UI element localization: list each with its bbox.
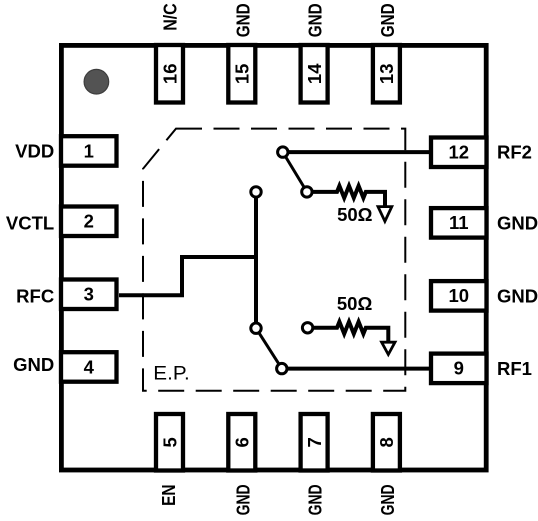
svg-text:1: 1	[84, 140, 94, 161]
svg-text:6: 6	[232, 437, 253, 447]
resistor R2 50ohm (bottom termination)	[308, 322, 389, 343]
pin 2 box	[61, 207, 117, 237]
pin 8 box	[373, 414, 400, 471]
node bottom throw contact	[251, 323, 261, 333]
pin 9 box	[431, 354, 487, 384]
svg-text:RF1: RF1	[497, 358, 532, 379]
svg-text:GND: GND	[232, 3, 253, 37]
svg-text:EN: EN	[158, 484, 179, 506]
pin 6 box	[228, 414, 255, 471]
node bottom 50ohm contact	[302, 323, 312, 333]
pin 3 box	[61, 280, 117, 310]
pin 7 box	[301, 414, 328, 471]
pin 1 box	[61, 136, 117, 166]
svg-text:GND: GND	[305, 484, 326, 515]
wire RF2 line to pin 12	[283, 150, 429, 154]
svg-text:E.P.: E.P.	[153, 363, 189, 385]
node RF1 contact	[277, 363, 287, 373]
svg-text:13: 13	[376, 64, 397, 85]
svg-text:GND: GND	[497, 212, 538, 233]
svg-text:50Ω: 50Ω	[337, 204, 373, 225]
ground arrow (bottom termination)	[382, 342, 395, 354]
pin 11 box	[431, 208, 487, 238]
node top 50ohm contact	[302, 187, 312, 197]
svg-text:14: 14	[304, 63, 325, 84]
wire RFC trace from pin 3	[119, 257, 256, 295]
svg-text:GND: GND	[377, 3, 398, 37]
svg-text:GND: GND	[13, 354, 54, 375]
resistor R1 50ohm (top termination)	[307, 186, 385, 207]
svg-text:GND: GND	[305, 3, 326, 37]
wire RF1 line to pin 9	[282, 367, 429, 371]
svg-text:50Ω: 50Ω	[337, 293, 373, 314]
svg-text:VDD: VDD	[15, 141, 54, 162]
svg-text:2: 2	[84, 211, 94, 232]
svg-text:RFC: RFC	[16, 286, 54, 307]
svg-text:8: 8	[376, 437, 397, 447]
svg-text:GND: GND	[232, 484, 253, 515]
pin 4 box	[61, 352, 117, 382]
pin 14 box	[301, 45, 328, 103]
svg-text:7: 7	[304, 437, 325, 447]
wire common pole line	[254, 192, 258, 328]
package outline U1 (QFN-16 body)	[61, 45, 486, 470]
svg-text:GND: GND	[377, 484, 398, 515]
switch arm RF2 to 50ohm termination	[283, 152, 307, 192]
svg-text:VCTL: VCTL	[6, 213, 54, 234]
pin-1 indicator dot	[84, 69, 109, 94]
svg-text:3: 3	[84, 284, 94, 305]
svg-text:9: 9	[454, 358, 464, 379]
node top throw contact	[251, 187, 261, 197]
switch arm pole to RF1	[256, 328, 282, 368]
pin 15 box	[228, 45, 255, 103]
pin 13 box	[373, 45, 400, 103]
exposed pad E.P. dashed outline	[143, 129, 405, 391]
ground arrow (top termination)	[378, 207, 392, 222]
svg-text:11: 11	[449, 212, 469, 233]
svg-text:15: 15	[232, 64, 253, 85]
pin 10 box	[431, 281, 487, 311]
svg-text:N/C: N/C	[160, 3, 181, 31]
pin 12 box	[431, 138, 487, 168]
svg-text:4: 4	[84, 356, 95, 377]
svg-text:16: 16	[159, 64, 180, 85]
svg-text:GND: GND	[497, 285, 538, 306]
svg-text:5: 5	[159, 437, 180, 447]
pin 5 box	[156, 414, 183, 471]
svg-text:RF2: RF2	[497, 141, 532, 162]
node RF2 contact	[278, 147, 288, 157]
svg-text:10: 10	[449, 285, 470, 306]
svg-text:12: 12	[449, 142, 470, 163]
pin 16 box	[156, 45, 183, 103]
